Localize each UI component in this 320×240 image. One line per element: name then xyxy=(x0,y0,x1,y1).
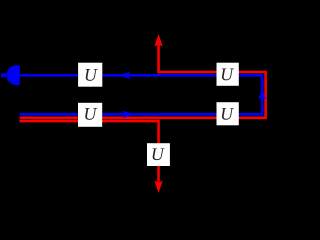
wire red lower branch to down arrow xyxy=(20,121,159,181)
arrowhead blue up on right vertical wire xyxy=(258,89,266,100)
transformer U3 (top-right box) xyxy=(217,63,239,86)
wire red outer loop: top node corner, right side, bottom return xyxy=(20,40,266,118)
arrowhead red up (top port) xyxy=(154,34,163,47)
arrowhead blue left on top wire xyxy=(119,72,130,80)
arrowhead red down (bottom port) xyxy=(154,180,163,193)
wire blue top/right/bottom: loudspeaker to right loop and back xyxy=(20,75,263,114)
transformer U4 (bottom-right box) xyxy=(217,102,239,125)
loudspeaker (blue earpiece symbol, left) xyxy=(1,65,20,85)
transformer U1 (top-left box) xyxy=(78,63,102,87)
arrowhead blue right on bottom wire xyxy=(123,111,134,119)
transformer U5 (bottom-center box) xyxy=(147,143,170,166)
transformer U2 (bottom-left box) xyxy=(78,103,102,127)
